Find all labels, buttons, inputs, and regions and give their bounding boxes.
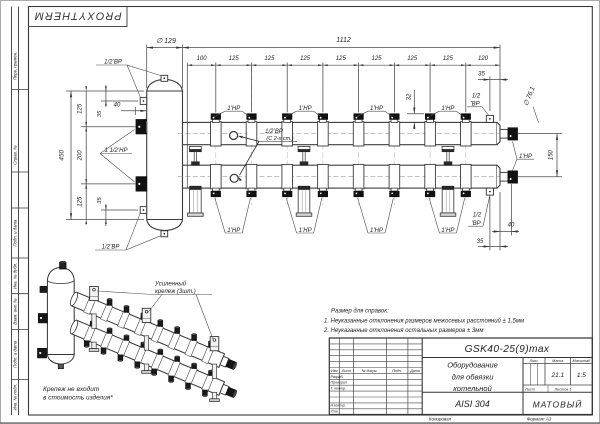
svg-text:Утв.: Утв. (331, 409, 339, 413)
svg-text:Подп. и дата: Подп. и дата (13, 219, 18, 247)
branch 4 centerline (322, 67, 324, 205)
title block row line y=367.5 (329, 367, 422, 369)
top pipe air vent fitting 1/2вр (486, 115, 493, 122)
bottom pipe axis centerline (178, 176, 520, 178)
iso pipe 2 bottom branch 6 (169, 376, 174, 382)
bottom branch outlet 5 1"НР (353, 164, 364, 188)
svg-text:1/2: 1/2 (472, 94, 481, 100)
iso pipe 2 top branch 4 (141, 343, 146, 348)
svg-text:120: 120 (478, 56, 489, 62)
masshtab column line (570, 358, 572, 386)
iso pipe 1 end nipple (226, 359, 236, 369)
iso pipe 2 collar 1 (84, 325, 96, 343)
svg-text:AISI 304: AISI 304 (454, 399, 490, 409)
tank bottom fitting (161, 231, 168, 237)
svg-text:Лист: Лист (524, 388, 535, 392)
iso pipe 2 bottom branch 4 (135, 362, 140, 368)
iso pipe 2 bottom branch 1 (84, 341, 89, 347)
iso reinforced bracket 1 (90, 286, 99, 300)
top branch outlet 8 1"НР (461, 122, 472, 146)
svg-text:Изм: Изм (331, 369, 338, 373)
svg-text:200: 200 (78, 150, 84, 162)
svg-text:Лит.: Лит. (529, 359, 539, 363)
bottom branch outlet 1 1"НР (211, 164, 222, 188)
svg-text:Подп.: Подп. (392, 369, 402, 373)
top branch outlet 5 1"НР (353, 122, 364, 146)
title block row line y=391.1 (329, 390, 422, 392)
title block row line y=355.7 (329, 355, 422, 357)
title block row line y=361.6 (329, 361, 422, 363)
svg-text:Разраб.: Разраб. (331, 375, 344, 379)
branch 7 centerline (429, 67, 431, 205)
svg-text:125: 125 (371, 56, 382, 62)
dimension 35 bottom right (489, 197, 491, 251)
iso tank body (47, 280, 74, 355)
svg-text:125: 125 (300, 56, 311, 62)
iso pipe 1 top branch 3 (124, 306, 129, 312)
left column divider 3 (12, 207, 29, 209)
svg-text:Взам. инв. №: Взам. инв. № (13, 298, 18, 325)
top collector pipe body (183, 122, 498, 144)
branch 1 centerline (215, 67, 217, 205)
dimension 450 tank height (66, 90, 144, 92)
svg-text:1:5: 1:5 (577, 372, 586, 379)
svg-text:крепеж (3шт.): крепеж (3шт.) (155, 289, 196, 295)
top branch outlet 7 1"НР (425, 122, 436, 146)
iso pipe 2 collar 5 (151, 353, 163, 371)
top branch outlet 1 1"НР (211, 122, 222, 146)
designation cell bottom (422, 357, 592, 359)
iso bracket 2 foot (144, 364, 148, 371)
iso pipe 1 collar 2 (101, 304, 113, 322)
svg-text:150: 150 (549, 149, 555, 160)
svg-text:125: 125 (407, 56, 418, 62)
lit sub columns (529, 364, 531, 386)
dimension 32 outlet height (413, 90, 415, 114)
iso bracket 1 strut (92, 314, 96, 328)
list/listov divider (547, 385, 549, 392)
bottom branch outlet 7 1"НР (425, 164, 436, 188)
svg-text:Подп. и дата: Подп. и дата (13, 340, 18, 368)
iso bracket 2 strut (144, 336, 148, 350)
tank body bottom line (147, 219, 183, 221)
branch 8 centerline (465, 67, 467, 205)
dimension 40 left nozzle (121, 110, 147, 112)
tank left wall fitting lower 1/2вр (140, 207, 147, 214)
svg-text:1/2’ВР: 1/2’ВР (265, 129, 283, 135)
left column divider 7 (12, 378, 29, 380)
iso pipe 2 top branch 6 (175, 357, 180, 362)
tank bottom dome (147, 220, 183, 231)
svg-text:котельной: котельной (453, 384, 492, 393)
iso pipe 1 collar 1 (84, 297, 96, 315)
dimension 35 upper left (101, 100, 138, 102)
svg-text:№ докум.: № докум. (362, 369, 378, 373)
svg-text:Н.контр.: Н.контр. (331, 404, 346, 408)
svg-text:125: 125 (336, 56, 347, 62)
iso pipe 2 end reducer (220, 384, 229, 395)
iso pipe 2 top branch 8 (209, 371, 214, 376)
title block column line x=353.6 (353, 338, 355, 415)
left column divider 1 (12, 89, 29, 91)
bottom pipe vent fitting 1/2вр (486, 188, 493, 195)
name/material divider x=523 (522, 358, 524, 415)
svg-text:Т. контр.: Т. контр. (331, 386, 347, 390)
iso pipe 1 top branch 6 (175, 327, 180, 333)
top pipe axis centerline (178, 133, 520, 135)
title block row line y=397 (329, 396, 422, 398)
iso pipe 2 bottom branch 5 (152, 369, 157, 375)
bottom pipe end nipple 1"НР (500, 172, 508, 181)
tank side fitting upper 1 1/2нр (136, 120, 147, 134)
page bottom shadow (0, 422, 600, 424)
title block row line y=379.3 (329, 378, 422, 380)
vent hole circle bottom pipe (230, 174, 238, 182)
iso collector pipe 2 (71, 320, 224, 395)
iso pipe 1 top branch 1 (90, 292, 95, 298)
iso pipe 2 top branch 5 (158, 350, 163, 355)
dimension chain 125/200/125 tank fittings (81, 126, 136, 128)
svg-text:Оборудование: Оборудование (447, 361, 498, 370)
iso tank side nozzle lower (38, 348, 47, 358)
bottom branch outlet 3 1"НР (282, 164, 293, 188)
iso pipe 2 end nipple (226, 387, 236, 397)
wall bracket 1 main view (190, 146, 202, 149)
iso tank side nozzle upper (38, 314, 47, 323)
dimension 1112 overall length (499, 45, 501, 122)
massa column line (544, 358, 546, 386)
iso pipe 1 top branch 7 (192, 335, 197, 341)
svg-text:Инв. № дубл.: Инв. № дубл. (13, 263, 18, 289)
iso pipe 2 top branch 2 (107, 329, 112, 334)
title block frame (329, 338, 592, 415)
svg-text:Дата: Дата (409, 369, 419, 373)
iso pipe 2 collar 2 (101, 332, 113, 350)
title block column line x=407.9 (407, 338, 409, 415)
left column divider 4 (12, 257, 29, 259)
left column inner line (18, 7, 20, 416)
svg-text:для обвязки: для обвязки (452, 373, 495, 382)
dimension Ø129 tank diameter (146, 45, 148, 89)
iso pipe 1 collar 4 (134, 318, 146, 336)
bottom pipe end cap (497, 165, 500, 188)
svg-text:125: 125 (78, 196, 84, 207)
wall bracket 2 main view (298, 146, 310, 149)
iso pipe 2 collar 3 (117, 339, 129, 357)
iso pipe 2 collar 7 (185, 367, 197, 385)
vent hole circle top pipe (230, 132, 238, 140)
svg-text:21.1: 21.1 (550, 372, 564, 379)
svg-text:Справ. №: Справ. № (13, 145, 18, 165)
iso reinforced bracket 3 (210, 337, 219, 351)
svg-text:Масштаб: Масштаб (573, 359, 592, 363)
svg-text:2. Неуказанные отклонения о: 2. Неуказанные отклонения остальных разм… (323, 328, 483, 334)
svg-text:Копировал: Копировал (429, 417, 452, 422)
title block row line y=343.9 (329, 343, 422, 345)
iso tank left small fitting (40, 286, 47, 292)
dimension 150 axes distance (518, 133, 562, 135)
svg-text:1. Неуказанные отклонения р: 1. Неуказанные отклонения размеров межос… (324, 318, 524, 325)
iso pipe 2 top branch 3 (124, 336, 129, 341)
svg-text:125: 125 (264, 56, 275, 62)
top branch outlet 4 1"НР (318, 122, 329, 146)
bottom branch outlet 4 1"НР (318, 164, 329, 188)
left column divider 2 (12, 171, 29, 173)
branch 6 centerline (393, 67, 395, 205)
svg-text:Размер для справок:: Размер для справок: (331, 309, 389, 315)
title block row line y=402.9 (329, 402, 422, 404)
left column divider 6 (12, 328, 29, 330)
dimension 40 nipple length (499, 192, 501, 251)
iso reinforced bracket 2 (142, 308, 151, 322)
svg-text:35: 35 (478, 72, 485, 78)
svg-text:1/2: 1/2 (473, 213, 482, 219)
iso pipe 1 collar 8 (202, 346, 214, 364)
iso pipe 2 bottom branch 7 (186, 383, 191, 389)
svg-text:∅ 129: ∅ 129 (156, 38, 176, 45)
svg-text:125: 125 (443, 56, 454, 62)
left column divider 5 (12, 293, 29, 295)
AISI cell top line (422, 391, 592, 393)
svg-text:Крепеж не входит: Крепеж не входит (43, 385, 100, 393)
top pipe end cap (497, 122, 500, 144)
svg-text:PROXYTHERM: PROXYTHERM (34, 10, 122, 22)
iso bracket 1 foot (92, 342, 96, 349)
svg-text:35: 35 (97, 110, 103, 117)
svg-text:125: 125 (78, 103, 84, 114)
top branch outlet 2 1"НР (246, 122, 257, 146)
svg-text:Формат А3: Формат А3 (527, 417, 552, 422)
dimension 35 top right (489, 77, 491, 112)
iso tank top nipple (60, 263, 66, 270)
dimension chain 100/125/120 (186, 63, 188, 189)
iso pipe 1 top branch 2 (107, 299, 112, 305)
top pipe end nipple 1"НР (500, 129, 508, 138)
bottom branch outlet 6 1"НР (389, 164, 400, 188)
wall bracket 3 main view (442, 146, 454, 149)
tank left wall fitting upper 1/2вр (140, 98, 147, 105)
title block row line y=385.2 (329, 384, 422, 386)
iso bracket 3 strut (212, 364, 216, 378)
title block main vertical 65mm (421, 338, 423, 415)
iso pipe 1 end reducer (220, 356, 229, 367)
svg-text:Листов 1: Листов 1 (554, 388, 572, 392)
iso pipe 2 bottom branch 8 (203, 390, 208, 396)
bottom collector pipe body (183, 165, 498, 188)
iso tank bottom cone (47, 355, 74, 365)
svg-text:Проверил: Проверил (331, 381, 347, 385)
svg-text:35: 35 (477, 239, 484, 245)
svg-text:Усиленный: Усиленный (154, 281, 187, 288)
iso pipe 2 top branch 1 (90, 322, 95, 327)
bottom branch outlet 2 1"НР (246, 164, 257, 188)
svg-text:32: 32 (407, 93, 413, 100)
svg-text:1/2’ВР: 1/2’ВР (104, 60, 122, 66)
svg-text:Лист: Лист (341, 369, 351, 373)
svg-text:125: 125 (229, 56, 240, 62)
tank top dome (147, 79, 183, 91)
svg-text:35: 35 (97, 197, 103, 204)
iso pipe 1 collar 7 (185, 339, 197, 357)
iso bracket 3 foot (212, 392, 216, 399)
iso pipe 1 top branch 4 (141, 313, 146, 319)
iso pipe 2 bottom branch 3 (118, 355, 123, 361)
svg-text:GSK40-25(9)max: GSK40-25(9)max (465, 344, 550, 355)
top branch outlet 6 1"НР (389, 122, 400, 146)
title block row line y=349.8 (329, 349, 422, 351)
title block row line y=373.4 (329, 372, 422, 374)
svg-text:1/2’ВР: 1/2’ВР (102, 245, 120, 251)
tank hydraulic separator body (147, 91, 183, 220)
iso pipe 2 bottom branch 2 (101, 348, 106, 354)
iso collector pipe 1 (71, 292, 224, 367)
title block column line x=386.4 (385, 338, 387, 415)
title block column line x=339.3 (338, 338, 340, 415)
dimension 35 lower left (101, 209, 138, 211)
svg-text:в стоимость изделия*: в стоимость изделия* (43, 394, 113, 402)
svg-text:Инв. № подл.: Инв. № подл. (13, 384, 18, 411)
svg-text:40: 40 (508, 223, 515, 229)
iso pipe 1 top branch 5 (158, 320, 163, 326)
svg-text:40: 40 (114, 103, 121, 109)
tank side fitting lower 1 1/2нр (136, 177, 147, 191)
title block row line y=408.8 (329, 408, 422, 410)
iso pipe 1 collar 5 (151, 325, 163, 343)
proxytherm box (29, 7, 128, 27)
left column outer line (11, 7, 13, 416)
iso pipe 1 top branch 8 (209, 342, 214, 348)
branch 5 centerline (358, 67, 360, 205)
svg-text:1112: 1112 (336, 37, 351, 44)
iso pipe 2 collar 8 (202, 374, 214, 392)
iso pipe 2 collar 6 (168, 360, 180, 378)
tank body top line (147, 90, 183, 92)
svg-text:Перв. примен.: Перв. примен. (13, 52, 18, 81)
svg-text:1 1/2’НР: 1 1/2’НР (104, 148, 127, 154)
branch 3 centerline (286, 67, 288, 205)
svg-text:450: 450 (59, 149, 66, 160)
top branch outlet 3 1"НР (282, 122, 293, 146)
svg-text:МАТОВЫЙ: МАТОВЫЙ (533, 399, 583, 410)
iso pipe 1 collar 6 (168, 332, 180, 350)
iso pipe 1 collar 3 (117, 311, 129, 329)
bottom branch outlet 8 1"НР (461, 164, 472, 188)
iso pipe 2 top branch 7 (192, 364, 197, 369)
tank top fitting 1/2вр (161, 75, 168, 81)
iso pipe 2 collar 4 (134, 346, 146, 364)
svg-text:100: 100 (197, 56, 208, 62)
svg-text:Масса: Масса (552, 359, 563, 363)
list row line (523, 384, 592, 386)
lit/massa/masshtab header bottom (523, 363, 592, 365)
branch 2 centerline (251, 67, 253, 205)
